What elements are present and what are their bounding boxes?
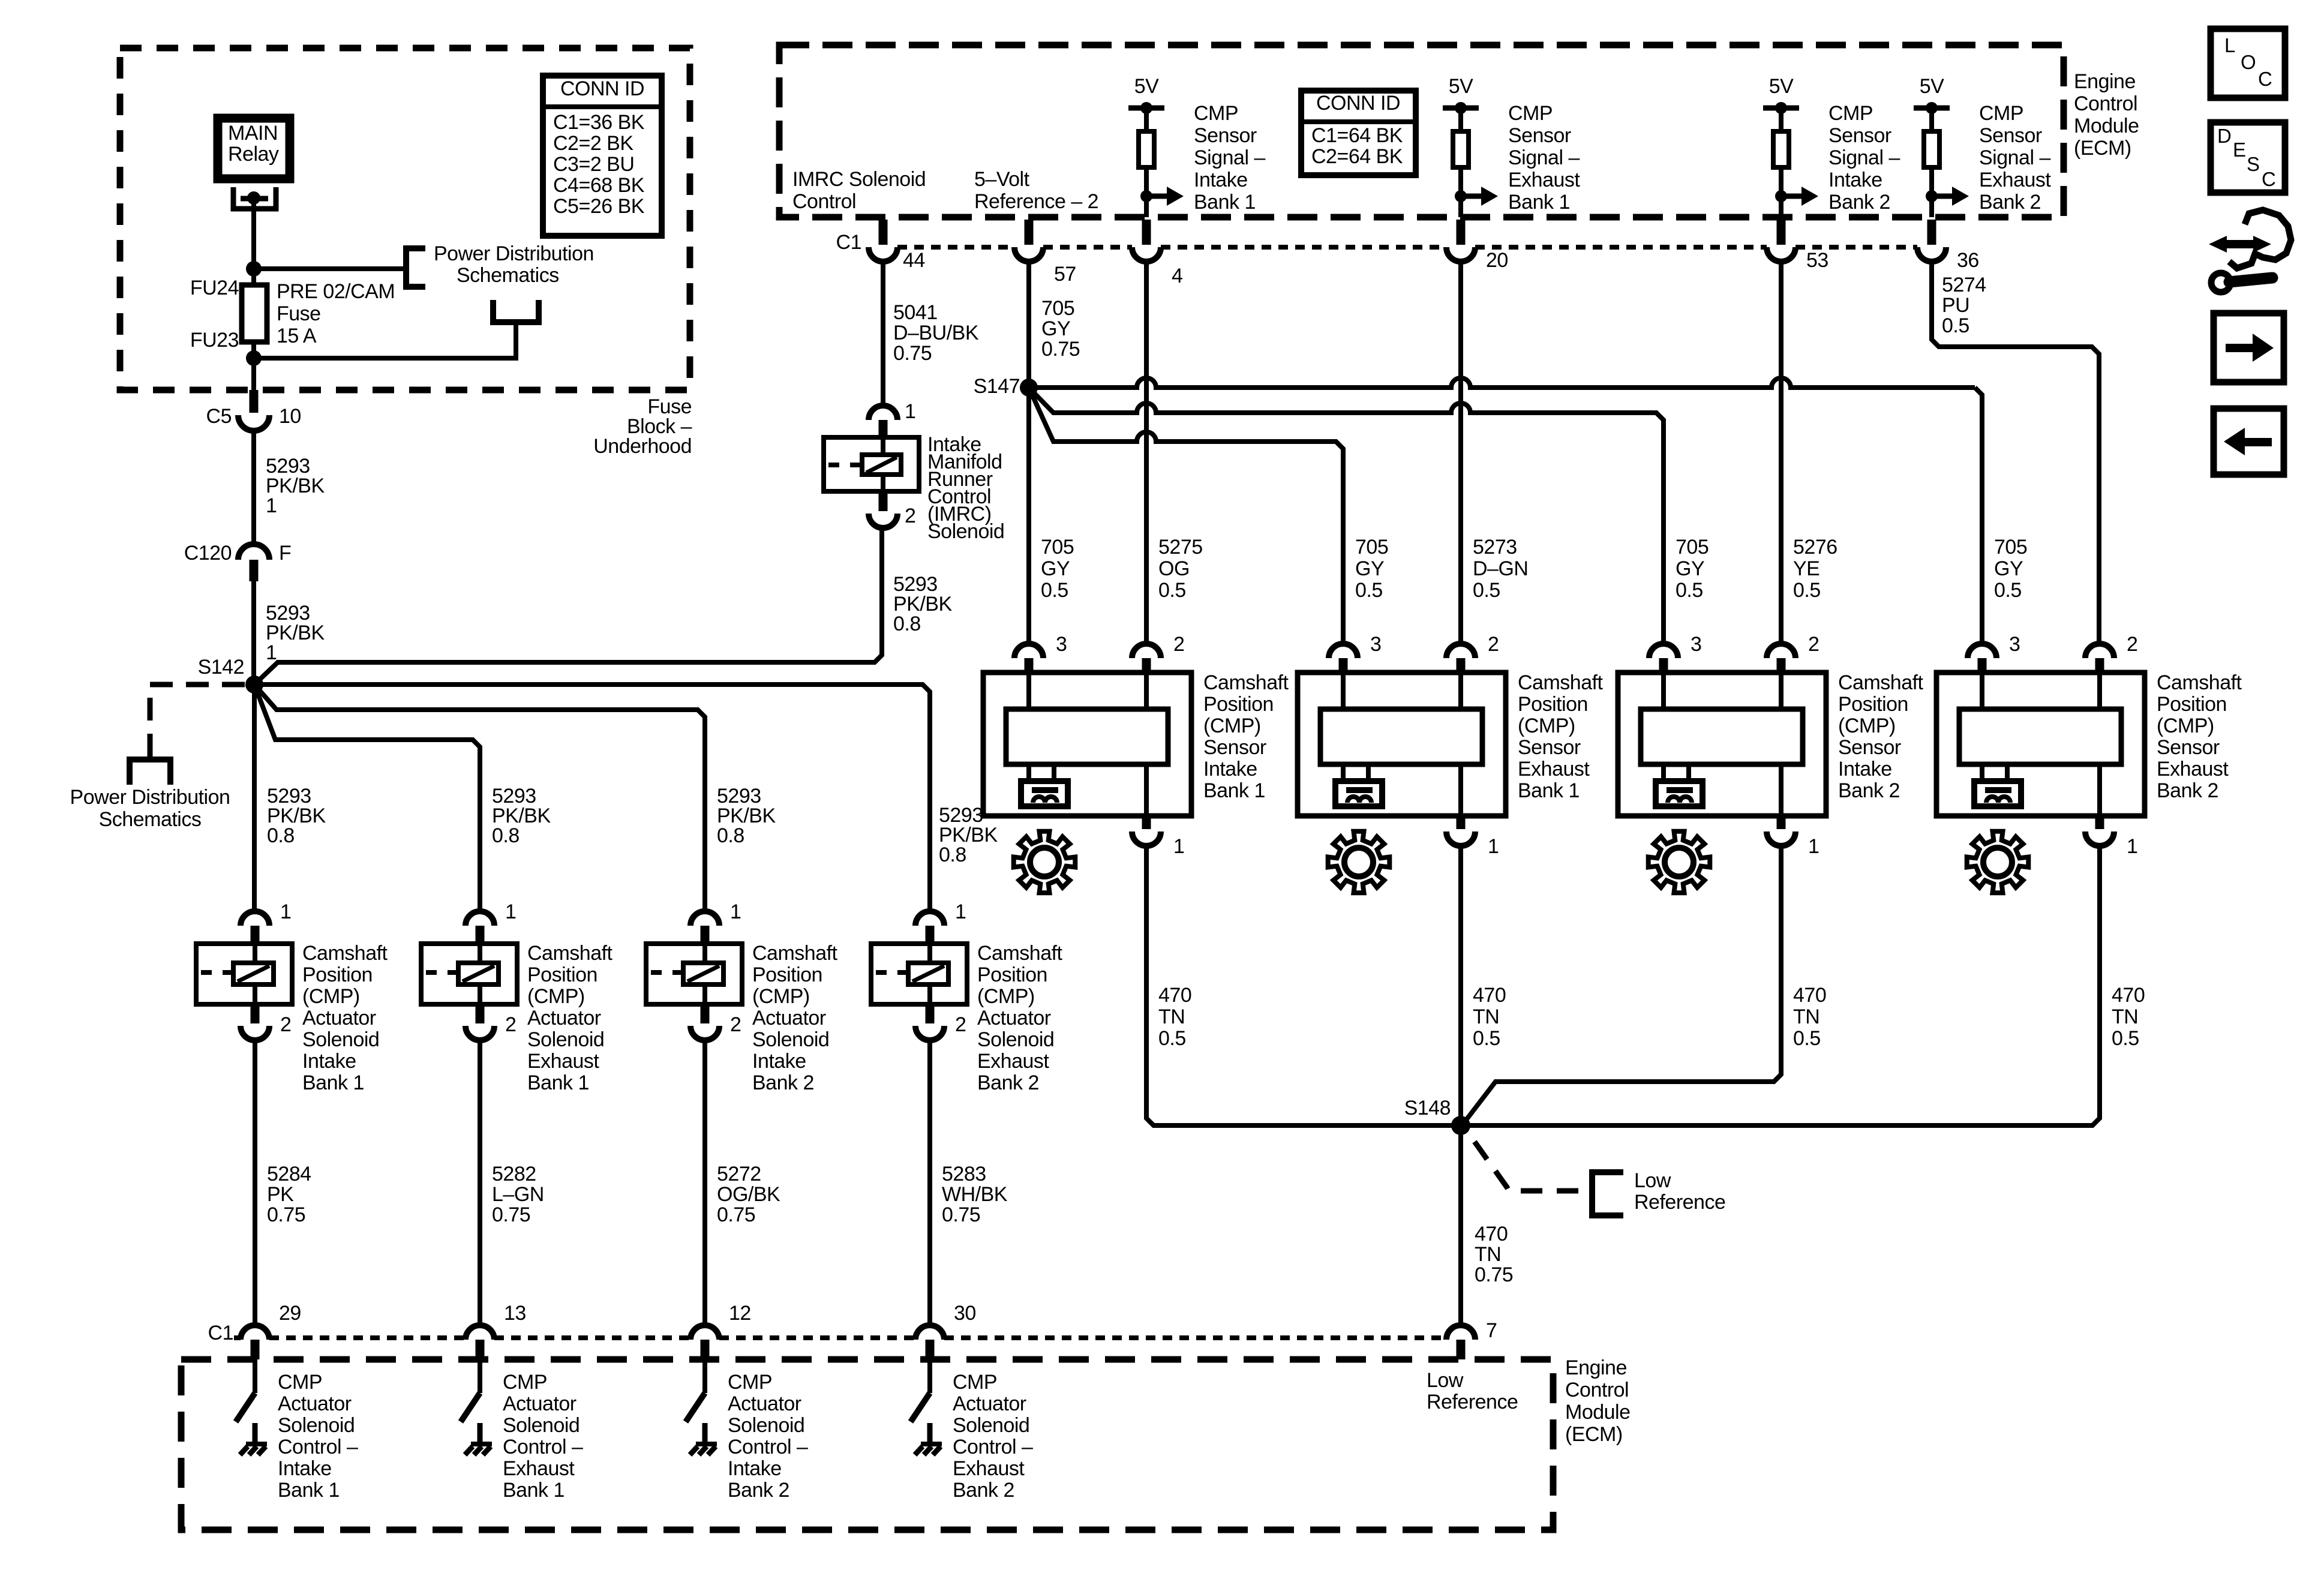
svg-text:0.75: 0.75: [1041, 338, 1080, 361]
svg-text:Camshaft: Camshaft: [1838, 671, 1924, 694]
solenoid CMP actuator Intake Bank 2 box: [646, 944, 742, 1004]
junction dot above fuse: [246, 261, 262, 277]
svg-text:Camshaft: Camshaft: [1518, 671, 1604, 694]
connector pin 1 of CMP actuator solenoid 4: [915, 911, 944, 926]
wire branch to power distribution bracket: [254, 266, 406, 271]
connector pin 1 of CMP sensor 4: [2095, 816, 2104, 829]
svg-text:1: 1: [1173, 835, 1184, 858]
svg-text:0.75: 0.75: [717, 1203, 755, 1226]
connector pin 2 of CMP sensor 2: [1446, 644, 1475, 658]
connector pin 1 of CMP sensor 2: [1457, 816, 1466, 829]
svg-text:Exhaust: Exhaust: [527, 1050, 599, 1073]
sensor element rectangle 2: [1320, 709, 1482, 764]
svg-text:36: 36: [1957, 249, 1979, 272]
wire from MAIN relay to fuse FU24: [251, 198, 256, 285]
svg-text:Sensor: Sensor: [2157, 736, 2220, 759]
wire 705 GY 0.75 from ECM pin 57 to S147: [1026, 262, 1031, 388]
svg-text:2: 2: [1488, 633, 1499, 656]
wire 470 TN from sensor 1 pin 1 to S148: [1146, 846, 1461, 1125]
svg-text:Camshaft: Camshaft: [1203, 671, 1289, 694]
svg-text:Solenoid: Solenoid: [503, 1414, 580, 1437]
svg-text:(ECM): (ECM): [2074, 137, 2131, 160]
svg-text:2: 2: [1173, 633, 1184, 656]
svg-text:5283: 5283: [942, 1163, 986, 1185]
splice S142: [245, 676, 263, 694]
svg-text:GY: GY: [1041, 557, 1070, 580]
svg-text:1: 1: [730, 900, 741, 923]
svg-text:D: D: [2217, 125, 2231, 147]
svg-text:Intake: Intake: [728, 1457, 782, 1480]
svg-text:Bank 1: Bank 1: [527, 1071, 589, 1094]
off-page bracket power distribution lower: [493, 300, 539, 322]
svg-text:(CMP): (CMP): [302, 985, 360, 1008]
svg-text:3: 3: [1370, 633, 1381, 656]
connector pin 2 of CMP actuator solenoid 3: [701, 1004, 710, 1023]
svg-text:Bank 1: Bank 1: [1194, 191, 1256, 214]
svg-text:L: L: [2224, 34, 2235, 56]
svg-text:C: C: [2258, 68, 2272, 90]
svg-text:Bank 2: Bank 2: [1828, 191, 1890, 214]
svg-text:12: 12: [729, 1302, 751, 1325]
svg-text:Bank 1: Bank 1: [503, 1479, 565, 1502]
svg-text:Exhaust: Exhaust: [1508, 169, 1580, 191]
svg-text:0.5: 0.5: [1158, 1027, 1186, 1050]
svg-text:C4=68 BK: C4=68 BK: [553, 174, 645, 197]
svg-text:Sensor: Sensor: [1518, 736, 1581, 759]
junction dot below fuse: [246, 350, 262, 366]
svg-text:2: 2: [505, 1013, 516, 1036]
relay MAIN Relay: [218, 118, 290, 179]
svg-text:S: S: [2247, 153, 2260, 175]
fuse block underhood dashed box: [120, 48, 690, 390]
svg-text:Sensor: Sensor: [1828, 124, 1891, 147]
wire 470 TN from sensor 4 pin 1 to S148: [1461, 846, 2100, 1125]
connector ID table fuse block: [543, 76, 662, 236]
wire 5282 from actuator 2 to ECM: [478, 1040, 482, 1325]
svg-text:Relay: Relay: [228, 143, 279, 166]
svg-text:Signal –: Signal –: [1979, 146, 2050, 169]
dashed stub S148 to low reference: [1475, 1142, 1589, 1191]
svg-text:TN: TN: [2112, 1005, 2138, 1028]
svg-text:CONN ID: CONN ID: [560, 77, 644, 100]
svg-text:Intake: Intake: [752, 1050, 806, 1073]
driver switch CMP actuator control 2 in ECM: [478, 1359, 482, 1393]
svg-text:0.8: 0.8: [717, 824, 744, 847]
svg-text:0.8: 0.8: [492, 824, 520, 847]
svg-text:Bank 1: Bank 1: [1203, 779, 1265, 802]
svg-text:Camshaft: Camshaft: [2157, 671, 2242, 694]
svg-text:(CMP): (CMP): [2157, 715, 2214, 737]
wire S142 branch to CMP actuator exhaust bank 1 column: [254, 685, 480, 911]
CMP sensor 1 box (Intake Bank 1): [983, 673, 1191, 816]
CMP sensor 3 box (Intake Bank 2): [1618, 673, 1826, 816]
connector pin 3 of CMP sensor 3: [1649, 644, 1678, 658]
svg-text:Signal –: Signal –: [1194, 146, 1265, 169]
svg-text:1: 1: [280, 900, 291, 923]
ground symbol in ECM for actuator 4: [927, 1423, 933, 1444]
signal junction and arrow ECM pin 4: [1140, 190, 1152, 202]
wire 5293 PK/BK 1 from C5 to C120: [251, 431, 256, 544]
icon box DESC: [2211, 122, 2285, 193]
sensor 3 pickup legs and coil box: [1664, 764, 1689, 781]
svg-text:5–Volt: 5–Volt: [974, 168, 1030, 191]
svg-text:705: 705: [1676, 536, 1709, 559]
svg-text:13: 13: [504, 1302, 526, 1325]
svg-text:0.75: 0.75: [492, 1203, 530, 1226]
svg-text:Bank 1: Bank 1: [278, 1479, 340, 1502]
signal junction and arrow ECM pin 53: [1775, 190, 1787, 202]
connector line C1 bottom (dotted): [234, 1335, 1446, 1340]
svg-text:PRE 02/CAM: PRE 02/CAM: [277, 280, 395, 303]
svg-text:TN: TN: [1473, 1005, 1499, 1028]
svg-text:S142: S142: [198, 656, 244, 679]
svg-text:Signal –: Signal –: [1828, 146, 1900, 169]
svg-text:(CMP): (CMP): [752, 985, 810, 1008]
svg-text:GY: GY: [1994, 557, 2023, 580]
svg-text:(CMP): (CMP): [527, 985, 585, 1008]
svg-text:Actuator: Actuator: [278, 1392, 352, 1415]
connector ECM pin 57 5-volt reference: [1025, 220, 1034, 245]
svg-text:Bank 2: Bank 2: [728, 1479, 789, 1502]
svg-text:Bank 2: Bank 2: [752, 1071, 814, 1094]
svg-text:0.8: 0.8: [939, 843, 966, 866]
sensor 2 pickup legs and coil box: [1343, 764, 1368, 781]
connector pin 2 of CMP actuator solenoid 4: [926, 1004, 935, 1023]
svg-text:Solenoid: Solenoid: [527, 1028, 604, 1051]
svg-text:2: 2: [2127, 633, 2137, 656]
svg-text:Sensor: Sensor: [1194, 124, 1257, 147]
svg-text:C1=36 BK: C1=36 BK: [553, 111, 645, 134]
svg-text:0.8: 0.8: [267, 824, 295, 847]
svg-text:CONN ID: CONN ID: [1316, 92, 1400, 115]
wire branch below fuse to power distribution bracket: [254, 322, 516, 358]
svg-text:Position: Position: [1203, 693, 1274, 716]
gear icon sensor 1: [1014, 831, 1076, 893]
connector ECM pin 13: [466, 1325, 494, 1340]
connector ECM pin 7 low reference: [1446, 1325, 1475, 1340]
svg-text:MAIN: MAIN: [228, 122, 278, 145]
ground symbol in ECM for actuator 3: [702, 1423, 708, 1444]
svg-text:1: 1: [266, 641, 277, 664]
svg-text:Solenoid: Solenoid: [728, 1414, 804, 1437]
connector pin 2 of IMRC solenoid: [879, 491, 888, 511]
svg-text:5V: 5V: [1449, 75, 1473, 98]
svg-text:Underhood: Underhood: [593, 435, 692, 458]
svg-text:GY: GY: [1355, 557, 1384, 580]
ground symbol in ECM for actuator 1: [253, 1423, 258, 1444]
svg-text:705: 705: [1041, 297, 1074, 320]
svg-text:Sensor: Sensor: [1979, 124, 2042, 147]
svg-text:Bank 1: Bank 1: [302, 1071, 364, 1094]
svg-text:Actuator: Actuator: [953, 1392, 1026, 1415]
connector terminal under MAIN relay: [233, 187, 276, 209]
connector ECM pin 53: [1777, 220, 1786, 245]
svg-text:CMP: CMP: [1979, 102, 2023, 125]
svg-text:C1: C1: [836, 231, 861, 254]
wire S147 to CMP sensor exhaust bank 1 pin 3 (705 GY): [1029, 388, 1343, 644]
svg-text:5V: 5V: [1769, 75, 1794, 98]
svg-text:57: 57: [1054, 263, 1076, 286]
sensor 1 pickup legs and coil box: [1029, 764, 1054, 781]
svg-text:Solenoid: Solenoid: [278, 1414, 355, 1437]
svg-text:Power Distribution: Power Distribution: [434, 242, 594, 265]
connector pin 2 of CMP actuator solenoid 1: [251, 1004, 260, 1023]
wire 5275 OG from ECM pin 4 to sensor 1 pin 2: [1144, 262, 1149, 644]
connector ID table ECM: [1301, 91, 1416, 175]
svg-text:Exhaust: Exhaust: [1979, 169, 2051, 191]
icon double arrow with panel outline and wrench: [2209, 236, 2227, 253]
wire 5284 from actuator 1 to ECM: [253, 1040, 257, 1325]
svg-text:Schematics: Schematics: [99, 808, 202, 831]
svg-text:C1: C1: [208, 1322, 233, 1344]
svg-text:TN: TN: [1475, 1243, 1501, 1266]
svg-text:29: 29: [279, 1302, 301, 1325]
connector pin 1 of CMP actuator solenoid 1: [241, 911, 269, 926]
wire S147 to CMP sensor intake bank 2 pin 3 (705 GY): [1029, 388, 1664, 644]
svg-text:Control –: Control –: [953, 1436, 1033, 1458]
icon box arrow left: [2214, 409, 2284, 475]
svg-text:IMRC Solenoid: IMRC Solenoid: [792, 168, 926, 191]
svg-text:705: 705: [1355, 536, 1388, 559]
svg-text:5V: 5V: [1134, 75, 1159, 98]
connector line C1 top (dotted): [897, 245, 1917, 250]
svg-text:Bank 2: Bank 2: [2157, 779, 2218, 802]
connector ECM pin 20: [1457, 220, 1466, 245]
svg-text:GY: GY: [1676, 557, 1704, 580]
off-page bracket low reference: [1592, 1172, 1623, 1215]
svg-text:5V: 5V: [1920, 75, 1944, 98]
svg-text:Reference: Reference: [1634, 1191, 1725, 1214]
wire S142 branch up-right to IMRC solenoid 5293 PK/BK 0.8: [254, 528, 882, 685]
svg-text:C3=2 BU: C3=2 BU: [553, 153, 634, 176]
splice S148: [1451, 1116, 1470, 1135]
svg-text:(CMP): (CMP): [1203, 715, 1261, 737]
svg-text:5284: 5284: [267, 1163, 311, 1185]
svg-text:TN: TN: [1158, 1005, 1185, 1028]
svg-text:Bank 1: Bank 1: [1518, 779, 1580, 802]
svg-text:0.75: 0.75: [893, 342, 932, 365]
svg-text:Position: Position: [1838, 693, 1908, 716]
svg-text:F: F: [279, 542, 291, 565]
wire 5272 from actuator 3 to ECM: [702, 1040, 707, 1325]
connector pin 1 of CMP sensor 3: [1777, 816, 1786, 829]
svg-text:4: 4: [1172, 265, 1182, 287]
svg-text:5272: 5272: [717, 1163, 761, 1185]
svg-text:CMP: CMP: [503, 1371, 547, 1394]
svg-text:705: 705: [1994, 536, 2027, 559]
svg-text:Fuse: Fuse: [277, 302, 321, 325]
off-page bracket power distribution top: [406, 248, 425, 287]
svg-text:Intake: Intake: [278, 1457, 332, 1480]
svg-text:3: 3: [1056, 633, 1067, 656]
dashed stub from S142 to power distribution schematics: [150, 685, 245, 757]
driver switch CMP actuator control 4 in ECM: [927, 1359, 932, 1393]
svg-text:Bank 1: Bank 1: [1508, 191, 1570, 214]
svg-text:Intake: Intake: [302, 1050, 356, 1073]
svg-text:Solenoid: Solenoid: [927, 520, 1004, 543]
svg-text:Control –: Control –: [503, 1436, 583, 1458]
connector pin 1 of CMP sensor 1: [1142, 816, 1151, 829]
svg-text:Bank 2: Bank 2: [953, 1479, 1014, 1502]
gear icon sensor 4: [1967, 831, 2029, 893]
CMP sensor 4 box (Exhaust Bank 2): [1936, 673, 2145, 816]
driver switch CMP actuator control 3 in ECM: [702, 1359, 707, 1393]
svg-text:Actuator: Actuator: [728, 1392, 801, 1415]
svg-text:PK: PK: [267, 1183, 294, 1206]
svg-text:C120: C120: [184, 542, 232, 565]
svg-text:Solenoid: Solenoid: [953, 1414, 1029, 1437]
svg-text:Solenoid: Solenoid: [977, 1028, 1054, 1051]
connector C120 pin F: [238, 544, 269, 560]
connector pin 1 of IMRC solenoid: [869, 406, 897, 420]
svg-text:2: 2: [905, 505, 915, 527]
svg-text:C5: C5: [206, 405, 232, 428]
svg-text:S148: S148: [1404, 1097, 1451, 1119]
svg-text:Position: Position: [2157, 693, 2227, 716]
svg-text:D–GN: D–GN: [1473, 557, 1528, 580]
svg-text:30: 30: [954, 1302, 976, 1325]
svg-text:Exhaust: Exhaust: [953, 1457, 1025, 1480]
svg-text:7: 7: [1486, 1319, 1497, 1342]
svg-text:1: 1: [905, 400, 915, 423]
wire 5293 PK/BK 1 from C120 to S142: [251, 581, 256, 685]
svg-text:Reference: Reference: [1427, 1391, 1518, 1413]
svg-text:O: O: [2241, 51, 2256, 73]
svg-text:C1=64 BK: C1=64 BK: [1311, 124, 1403, 147]
engine control module bottom dashed box: [181, 1359, 1553, 1530]
svg-text:Position: Position: [1518, 693, 1588, 716]
svg-text:Control: Control: [792, 190, 856, 213]
solenoid IMRC box: [824, 437, 919, 491]
wire S147 to CMP sensor exhaust bank 2 pin 3 (705 GY): [1029, 378, 1975, 388]
svg-text:Bank 2: Bank 2: [1979, 191, 2041, 214]
svg-text:10: 10: [279, 405, 301, 428]
svg-text:44: 44: [903, 249, 925, 272]
svg-text:0.75: 0.75: [1475, 1263, 1513, 1286]
svg-text:2: 2: [730, 1013, 741, 1036]
wire S142 down to CMP actuator intake bank 1: [252, 685, 257, 911]
svg-text:0.75: 0.75: [942, 1203, 980, 1226]
svg-text:0.5: 0.5: [1041, 579, 1068, 602]
svg-text:(CMP): (CMP): [1838, 715, 1896, 737]
connector ECM pin 30: [915, 1325, 944, 1340]
svg-text:Engine: Engine: [1565, 1356, 1627, 1379]
svg-text:CMP: CMP: [1508, 102, 1553, 125]
svg-text:0.5: 0.5: [1942, 314, 1969, 337]
svg-text:Actuator: Actuator: [977, 1007, 1051, 1029]
svg-text:Exhaust: Exhaust: [503, 1457, 575, 1480]
wire through fuse down to C5: [251, 342, 256, 413]
svg-text:Camshaft: Camshaft: [527, 942, 613, 965]
svg-text:Sensor: Sensor: [1203, 736, 1266, 759]
svg-text:Low: Low: [1427, 1369, 1464, 1392]
connector pin 2 of CMP sensor 1: [1132, 644, 1161, 658]
svg-text:Camshaft: Camshaft: [977, 942, 1063, 965]
svg-text:(CMP): (CMP): [977, 985, 1035, 1008]
svg-text:705: 705: [1041, 536, 1074, 559]
wire 5283 from actuator 4 to ECM: [927, 1040, 932, 1325]
svg-text:0.75: 0.75: [267, 1203, 305, 1226]
sensor element rectangle 3: [1641, 709, 1803, 764]
svg-text:Reference – 2: Reference – 2: [974, 190, 1098, 213]
svg-text:C5=26 BK: C5=26 BK: [553, 195, 645, 218]
svg-text:0.5: 0.5: [1473, 1027, 1500, 1050]
svg-text:1: 1: [1808, 835, 1819, 858]
connector pin 1 of CMP actuator solenoid 2: [466, 911, 494, 926]
svg-text:0.5: 0.5: [1994, 579, 2022, 602]
svg-text:Schematics: Schematics: [457, 264, 559, 287]
svg-text:OG: OG: [1158, 557, 1190, 580]
wrench part of icon: [2211, 273, 2230, 292]
svg-text:Exhaust: Exhaust: [2157, 758, 2229, 781]
ground symbol in ECM for actuator 2: [478, 1423, 483, 1444]
sensor element rectangle 1: [1006, 709, 1168, 764]
signal junction and arrow ECM pin 20: [1455, 190, 1467, 202]
svg-text:Bank 2: Bank 2: [977, 1071, 1039, 1094]
CMP sensor 2 box (Exhaust Bank 1): [1298, 673, 1506, 816]
svg-text:Exhaust: Exhaust: [977, 1050, 1049, 1073]
svg-text:CMP: CMP: [1828, 102, 1873, 125]
svg-text:470: 470: [1793, 984, 1826, 1007]
svg-text:Signal –: Signal –: [1508, 146, 1580, 169]
svg-text:470: 470: [2112, 984, 2145, 1007]
svg-text:FU24: FU24: [190, 277, 239, 299]
svg-text:0.5: 0.5: [1158, 579, 1186, 602]
svg-text:Module: Module: [2074, 115, 2139, 137]
svg-text:Sensor: Sensor: [1838, 736, 1901, 759]
svg-text:470: 470: [1158, 984, 1191, 1007]
svg-text:Actuator: Actuator: [752, 1007, 826, 1029]
off-page bracket power distribution (S142): [130, 760, 170, 785]
svg-text:0.5: 0.5: [1355, 579, 1383, 602]
wire 470 TN 0.75 from S148 to ECM pin 7: [1458, 1125, 1463, 1325]
svg-text:Solenoid: Solenoid: [302, 1028, 379, 1051]
svg-text:Engine: Engine: [2074, 70, 2136, 93]
svg-text:5274: 5274: [1942, 274, 1986, 296]
svg-text:0.5: 0.5: [1793, 579, 1821, 602]
solenoid CMP actuator Exhaust Bank 2 box: [871, 944, 967, 1004]
svg-text:Solenoid: Solenoid: [752, 1028, 829, 1051]
sensor 4 pickup legs and coil box: [1982, 764, 2007, 781]
wire 5041 D-BU/BK 0.75 from ECM pin 44 to IMRC solenoid: [881, 262, 885, 406]
svg-text:Position: Position: [302, 963, 373, 986]
svg-text:C2=2 BK: C2=2 BK: [553, 132, 633, 155]
svg-text:0.5: 0.5: [1793, 1027, 1821, 1050]
wire 5274 PU from ECM pin 36 to sensor 4 pin 2: [1932, 262, 2099, 644]
svg-text:CMP: CMP: [1194, 102, 1238, 125]
svg-text:CMP: CMP: [278, 1371, 322, 1394]
svg-text:0.5: 0.5: [1473, 579, 1500, 602]
svg-text:5276: 5276: [1793, 536, 1837, 559]
icon box arrow right: [2214, 313, 2284, 382]
svg-text:TN: TN: [1793, 1005, 1819, 1028]
svg-text:Actuator: Actuator: [302, 1007, 376, 1029]
wire 705 GY 0.5 from S147 to CMP sensor intake bank 1 pin 3: [1026, 388, 1031, 644]
svg-text:5275: 5275: [1158, 536, 1203, 559]
wire 470 TN from sensor 2 pin 1 to S148: [1458, 846, 1463, 1125]
svg-text:FU23: FU23: [190, 329, 239, 352]
svg-text:1: 1: [266, 494, 277, 517]
svg-text:15 A: 15 A: [277, 325, 317, 347]
fuse FU24/FU23 PRE O2/CAM 15 A: [242, 285, 267, 342]
driver switch CMP actuator control 1 in ECM: [253, 1359, 257, 1393]
connector pin 2 of CMP sensor 3: [1767, 644, 1795, 658]
svg-text:0.8: 0.8: [893, 613, 921, 635]
connector pin 2 of CMP actuator solenoid 2: [476, 1004, 485, 1023]
svg-text:2: 2: [1808, 633, 1819, 656]
svg-text:5041: 5041: [893, 301, 938, 324]
svg-text:Intake: Intake: [1828, 169, 1882, 191]
